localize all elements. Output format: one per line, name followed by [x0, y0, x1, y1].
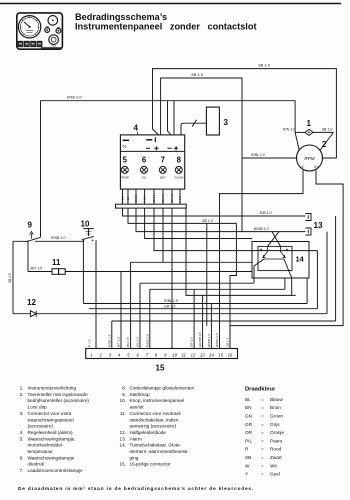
svg-text:Paars: Paars: [270, 438, 283, 443]
wire: bar across to right riser (GR): [154, 208, 317, 309]
svg-text:oliedruk: oliedruk: [28, 462, 45, 467]
rocker switch unit 14 (glow element alarm reset): [252, 242, 309, 279]
svg-text:W/GN 1.5: W/GN 1.5: [215, 333, 219, 347]
cable marker slash: [192, 120, 196, 127]
wire: bar right to 14 underside: [186, 208, 296, 295]
riser from 14 bottom edge: [284, 278, 286, 289]
svg-text:13.: 13.: [119, 436, 126, 441]
svg-text:Bruin: Bruin: [270, 405, 281, 410]
svg-text:Knop, instrumentenpaneel: Knop, instrumentenpaneel: [130, 398, 185, 403]
wire S+ of tach down right side to pin 16: [230, 170, 343, 348]
svg-text:7: 7: [161, 155, 165, 164]
svg-text:GR 1.5: GR 1.5: [164, 305, 175, 309]
svg-text:aan/uit: aan/uit: [130, 405, 145, 410]
wire: pin 14 drop from R/BL line: [210, 304, 212, 349]
svg-text:element -alarmreset/bevesti-: element -alarmreset/bevesti-: [130, 449, 190, 454]
wire SB 1.0 top loop: box4 terminal to tach right terminal: [153, 69, 337, 158]
svg-text:9.: 9.: [122, 392, 126, 397]
svg-text:5: 5: [123, 155, 128, 164]
left drop wire SB 1.5: [12, 241, 14, 313]
svg-text:Tuimelschakelaar. Gloei-: Tuimelschakelaar. Gloei-: [130, 443, 182, 448]
svg-text:TEMP: TEMP: [121, 176, 129, 180]
svg-text:SB 1.5: SB 1.5: [8, 273, 12, 283]
switch 9 lower leg: [27, 241, 29, 271]
svg-text:S+: S+: [314, 165, 318, 169]
wire: bar to alarm box 14 left-top corner: [145, 208, 252, 238]
svg-text:9: 9: [28, 221, 33, 230]
svg-text:10.: 10.: [119, 398, 126, 403]
svg-text:Draadkleur: Draadkleur: [245, 387, 276, 393]
svg-text:=: =: [261, 414, 264, 419]
wire R/N 1.0 into connector 1: [295, 131, 305, 133]
svg-text:GN 1.5: GN 1.5: [136, 337, 140, 347]
svg-text:R/N 1.0: R/N 1.0: [283, 127, 295, 131]
svg-text:W/SB 1.0: W/SB 1.0: [254, 227, 269, 231]
svg-text:=: =: [261, 447, 264, 452]
svg-text:SB 1.5: SB 1.5: [152, 194, 156, 203]
svg-text:Halfgeleiderdiode: Halfgeleiderdiode: [130, 430, 167, 435]
svg-text:15: 15: [156, 364, 165, 373]
svg-text:BN 1.5: BN 1.5: [161, 194, 165, 203]
svg-text:=: =: [261, 472, 264, 477]
svg-text:R/BL 1.0: R/BL 1.0: [251, 153, 265, 157]
svg-text:GR 1.5: GR 1.5: [170, 193, 174, 202]
svg-text:Groen: Groen: [270, 414, 283, 419]
jog wire from W/SB line down to pin 16: [128, 208, 236, 348]
svg-text:12.: 12.: [119, 430, 126, 435]
wire R/BL 1.5: [83, 303, 307, 305]
svg-text:SB 1.5: SB 1.5: [226, 337, 230, 347]
switch 10 legs down: [83, 240, 96, 348]
svg-text:SB 1.0: SB 1.0: [202, 219, 213, 223]
svg-text:Waarschuwingslampje: Waarschuwingslampje: [28, 455, 75, 460]
svg-text:OIL: OIL: [142, 176, 147, 180]
svg-text:=: =: [261, 397, 264, 402]
riser from pin3 line up to R/B line: [335, 216, 337, 321]
wire W/SB 1.0: bar to connector 13 lower pin: [136, 208, 305, 232]
rocker switch right half: [281, 246, 286, 257]
svg-text:R 1.5: R 1.5: [178, 196, 182, 203]
svg-text:13: 13: [314, 221, 323, 230]
svg-text:BN: BN: [245, 405, 252, 410]
svg-text:2.: 2.: [20, 392, 24, 397]
svg-text:10: 10: [172, 352, 177, 357]
svg-text:Grijs: Grijs: [270, 422, 280, 427]
svg-text:Connector voor extra: Connector voor extra: [28, 411, 72, 416]
svg-text:4: 4: [134, 124, 139, 133]
svg-text:15.: 15.: [119, 462, 126, 467]
svg-text:Loze dop: Loze dop: [28, 405, 48, 410]
svg-text:10: 10: [81, 220, 90, 229]
wire: bar to connector pin 10: [171, 208, 173, 348]
svg-text:OR: OR: [245, 430, 253, 435]
svg-text:1.: 1.: [20, 386, 24, 391]
svg-text:SB 1.0: SB 1.0: [258, 63, 271, 68]
svg-text:Geel: Geel: [270, 472, 280, 477]
page top rule: [0, 3, 341, 5]
svg-text:13: 13: [200, 352, 205, 357]
svg-text:Oranje: Oranje: [270, 430, 284, 435]
wire R/SB 1.0 between switch 9 and 10: [35, 240, 83, 242]
wire R/B 1.0: bar to connector 13 upper pin: [123, 208, 306, 216]
svg-text:14: 14: [209, 352, 214, 357]
wire: bar down to pin 5 via jog: [131, 208, 252, 348]
svg-text:Laadstroomcontrolelampje: Laadstroomcontrolelampje: [28, 468, 84, 473]
wire to extra panel connector 3: [181, 123, 206, 135]
svg-text:R/W 1.0: R/W 1.0: [67, 95, 82, 100]
wire to pin 3: [112, 321, 336, 349]
svg-text:Bedradingsschema’s: Bedradingsschema’s: [75, 12, 167, 22]
svg-text:11: 11: [52, 258, 61, 267]
svg-text:BAT: BAT: [160, 176, 166, 180]
connector 1 (diamond splice): [305, 129, 313, 135]
wire stubs from R/W line into box 4 terminals: [168, 101, 175, 135]
wire from connector 11 to box 14: [65, 271, 252, 273]
svg-text:BL: BL: [245, 397, 251, 402]
svg-text:Blauw: Blauw: [270, 397, 283, 402]
svg-text:11: 11: [182, 352, 186, 357]
svg-text:Waarschuwingslampje,: Waarschuwingslampje,: [28, 436, 76, 441]
wire SB 1.0 second loop: box4 terminal down right side to W/SB line: [161, 78, 242, 232]
svg-text:=: =: [261, 422, 264, 427]
connector 13 lower pin: [305, 228, 311, 235]
svg-text:12: 12: [191, 352, 196, 357]
svg-text:waarschuwingspaneel: waarschuwingspaneel: [28, 417, 74, 422]
svg-text:3: 3: [224, 118, 229, 127]
wire: pin 6 riser to 14 pigtail: [140, 283, 254, 348]
panel edge bar: [116, 204, 187, 208]
wire: pin 13 drop from 14 underside line: [202, 295, 204, 348]
svg-text:1: 1: [90, 352, 92, 357]
svg-text:7.: 7.: [20, 468, 24, 473]
svg-text:Startknop: Startknop: [130, 392, 150, 397]
svg-text:15: 15: [218, 352, 223, 357]
svg-text:Alarm: Alarm: [130, 436, 142, 441]
instrument panel pictogram: [17, 13, 63, 49]
svg-text:SB 1.0: SB 1.0: [322, 127, 333, 131]
svg-text:61: 61: [123, 144, 127, 148]
svg-text:GR: GR: [245, 422, 253, 427]
svg-text:De draadmaten in mm² staan in: De draadmaten in mm² staan in de bedradi…: [18, 486, 254, 492]
svg-text:Toerenteller met ingebouwde: Toerenteller met ingebouwde: [28, 392, 89, 397]
svg-text:SB 1.5: SB 1.5: [134, 194, 138, 203]
svg-text:=: =: [261, 463, 264, 468]
svg-text:4.: 4.: [20, 430, 24, 435]
connector 13 upper pin: [305, 214, 311, 221]
svg-text:PU: PU: [245, 438, 252, 443]
svg-text:16-polige connector: 16-polige connector: [130, 462, 172, 467]
control unit 4 (alarm) with warning lamps: [120, 135, 184, 189]
svg-text:R 1.5: R 1.5: [143, 196, 147, 203]
svg-text:Instrumentenpaneel zonder cont: Instrumentenpaneel zonder contactslot: [75, 22, 257, 32]
svg-text:3.: 3.: [20, 411, 24, 416]
svg-text:BN 1.5: BN 1.5: [126, 337, 130, 347]
svg-text:2: 2: [322, 140, 327, 149]
svg-text:temperatuur: temperatuur: [28, 449, 54, 454]
svg-text:12: 12: [27, 298, 36, 307]
svg-text:Instrumentenverlichting: Instrumentenverlichting: [28, 386, 77, 391]
wire: pin 7 riser to 14 pigtail: [150, 289, 285, 348]
contact bar inside switch 14: [264, 258, 284, 260]
svg-text:=: =: [261, 438, 264, 443]
svg-text:SB 1.0: SB 1.0: [191, 72, 204, 77]
svg-text:Rood: Rood: [270, 447, 282, 452]
svg-text:bedrijfsurenteller (accessoir: bedrijfsurenteller (accessoire): [28, 398, 90, 403]
svg-text:11.: 11.: [120, 411, 126, 416]
svg-text:standschakelaar, indien: standschakelaar, indien: [130, 417, 179, 422]
svg-text:=: =: [261, 455, 264, 460]
wire from connector 11 line down to pin 4: [120, 272, 122, 349]
svg-text:5.: 5.: [20, 436, 24, 441]
svg-text:14: 14: [296, 255, 305, 264]
svg-text:Zwart: Zwart: [270, 455, 282, 460]
svg-text:W/SB 1.5: W/SB 1.5: [207, 334, 211, 347]
svg-text:R/B 1.0: R/B 1.0: [260, 211, 272, 215]
svg-text:GR/SB 1.5: GR/SB 1.5: [198, 332, 202, 347]
wire R/BL 1.0 to tach left terminal: [242, 157, 297, 159]
svg-text:W: W: [245, 463, 250, 468]
svg-text:8.: 8.: [122, 386, 126, 391]
svg-text:R 1.5: R 1.5: [88, 339, 92, 347]
riser from diode line up to W/SB line: [326, 232, 328, 314]
svg-text:aanwezig (accessoire): aanwezig (accessoire): [130, 424, 177, 429]
svg-text:6: 6: [142, 155, 147, 164]
svg-text:GN: GN: [245, 414, 252, 419]
wire SB 1.0 from connector 1: [313, 131, 334, 133]
svg-text:R/SB 1.0: R/SB 1.0: [51, 236, 65, 240]
wire GR 1.5: [89, 308, 317, 310]
wires from box 4 down through panel bar: [122, 189, 124, 204]
svg-text:8: 8: [177, 155, 182, 164]
svg-text:(accessoire): (accessoire): [28, 424, 54, 429]
16-pole connector 15: [86, 349, 238, 359]
svg-text:Connector voor neutraal-: Connector voor neutraal-: [130, 411, 182, 416]
svg-text:Controlelampje gloeielementen: Controlelampje gloeielementen: [130, 386, 195, 391]
svg-text:16: 16: [228, 352, 233, 357]
svg-text:R/GN 1.5: R/GN 1.5: [145, 334, 149, 347]
svg-text:SB: SB: [245, 455, 251, 460]
long drop wire from SB line: [206, 223, 208, 325]
svg-text:GR 1.5: GR 1.5: [190, 337, 194, 347]
tachometer 2 (RPM, with hour counter): [297, 145, 323, 171]
svg-text:GLOW: GLOW: [174, 176, 183, 180]
wire S- of tach down then across to pin 15: [220, 170, 304, 348]
svg-text:ging: ging: [130, 455, 139, 460]
funnel wires down to tachometer 2: [295, 132, 333, 150]
svg-text:Regeleenheid (alarm): Regeleenheid (alarm): [28, 430, 74, 435]
svg-text:B/Y 1.5: B/Y 1.5: [117, 337, 121, 347]
svg-text:1: 1: [307, 119, 312, 128]
branches down into rocker switch 14 contacts (crossing pair): [268, 232, 281, 247]
svg-text:motorkoelmiddel-: motorkoelmiddel-: [28, 443, 64, 448]
rocker switch left half: [263, 246, 268, 257]
svg-text:R/SB 1.5: R/SB 1.5: [107, 334, 111, 347]
svg-text:Wit: Wit: [270, 463, 277, 468]
svg-text:Y 1.5: Y 1.5: [121, 196, 125, 203]
svg-text:RPM: RPM: [304, 156, 314, 161]
svg-text:B/Y 1.5: B/Y 1.5: [31, 266, 43, 270]
svg-text:6.: 6.: [20, 455, 24, 460]
svg-text:R/BL 1.5: R/BL 1.5: [164, 299, 178, 303]
wire: pin 12 drop from that line: [193, 289, 195, 348]
svg-text:=: =: [261, 405, 264, 410]
svg-text:Y 1.5: Y 1.5: [126, 196, 130, 203]
svg-text:=: =: [261, 430, 264, 435]
connector 3 for extra warning panel: [206, 107, 219, 135]
switch pigtails down to staircase: [254, 259, 264, 283]
wire R/W 1.0: left loop from pushbutton 9 across top to tach feed: [41, 101, 296, 238]
svg-text:14.: 14.: [119, 443, 126, 448]
